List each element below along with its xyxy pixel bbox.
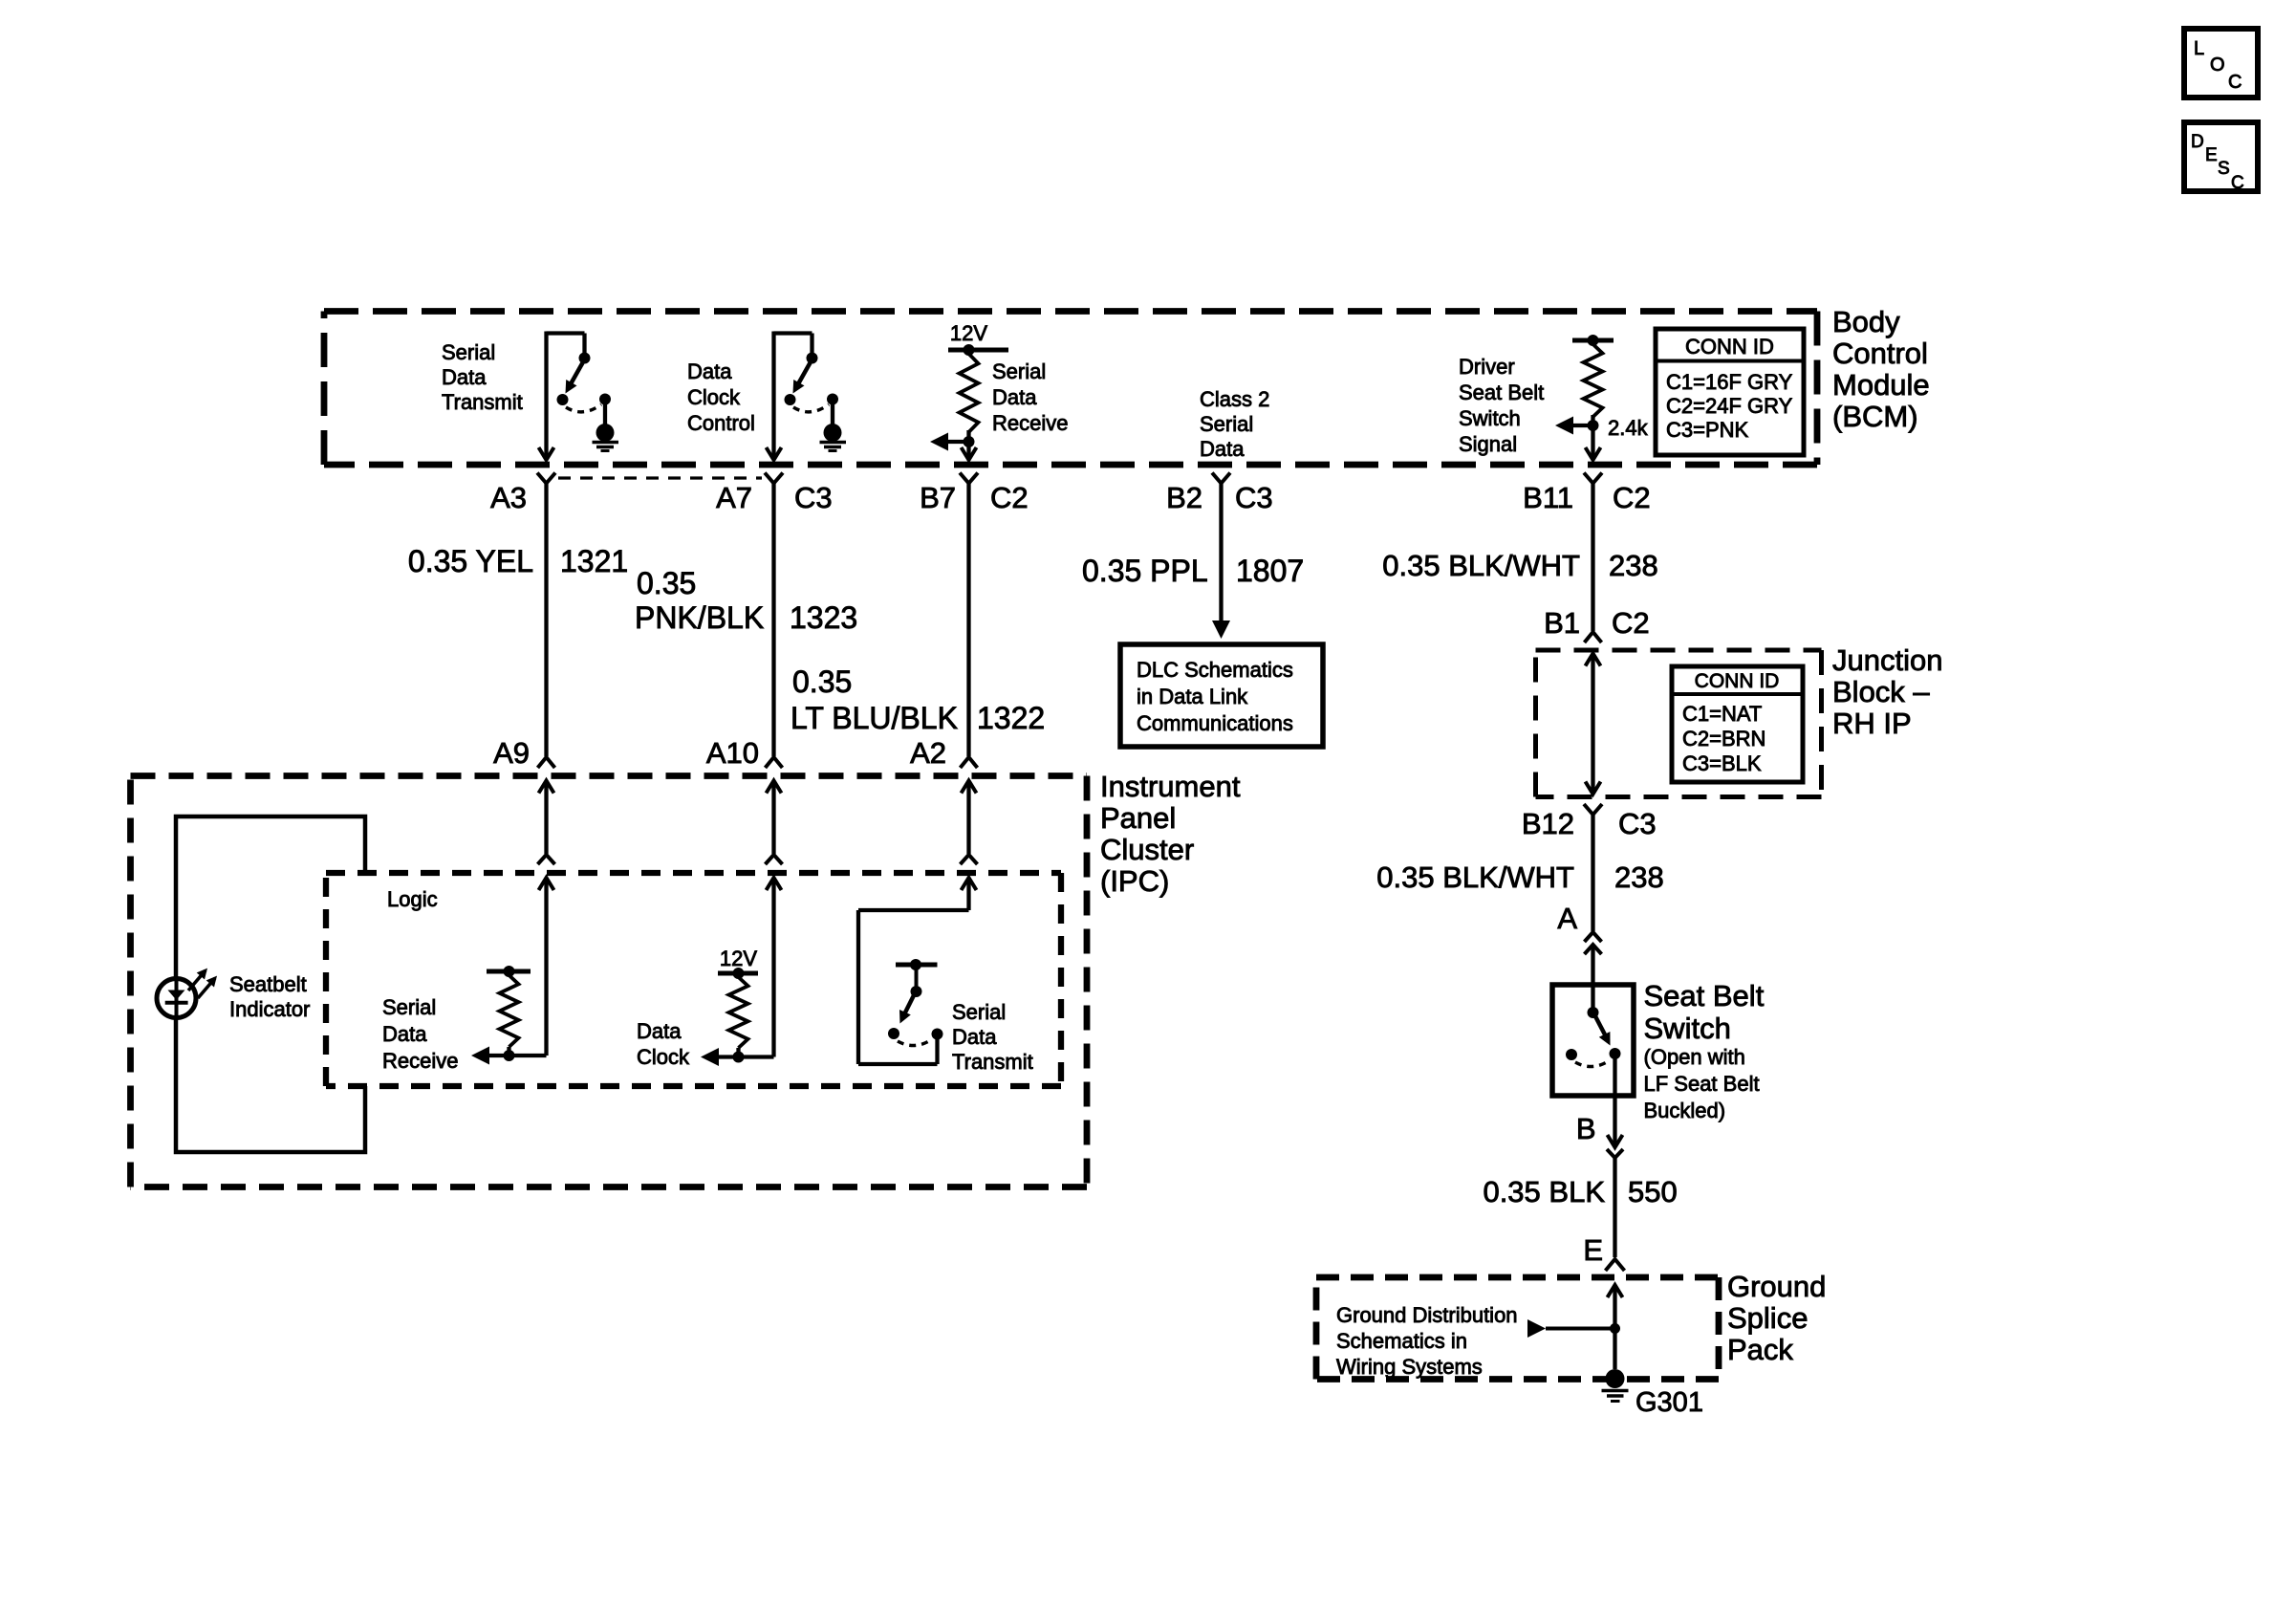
- svg-text:C: C: [2231, 173, 2244, 193]
- connector A10: [706, 736, 783, 770]
- svg-text:A7: A7: [716, 481, 752, 514]
- svg-text:Data: Data: [687, 359, 732, 383]
- svg-text:D: D: [2191, 132, 2204, 152]
- svg-text:O: O: [2210, 54, 2225, 76]
- label: Body Control Module (BCM): [1832, 305, 1930, 433]
- svg-text:Driver: Driver: [1459, 355, 1515, 379]
- svg-text:Pack: Pack: [1727, 1333, 1793, 1366]
- svg-text:Block –: Block –: [1832, 675, 1930, 708]
- wire label: 0.35 BLK / 550: [1483, 1175, 1677, 1208]
- LED light arrows: [188, 969, 217, 998]
- svg-text:2.4k: 2.4k: [1608, 416, 1649, 440]
- svg-text:Buckled): Buckled): [1644, 1099, 1726, 1122]
- Seat Belt Switch box: [1552, 985, 1634, 1096]
- svg-text:238: 238: [1614, 860, 1664, 894]
- connector A9: [493, 736, 554, 770]
- wire A3 to A9: [544, 484, 548, 757]
- svg-text:0.35: 0.35: [792, 664, 852, 699]
- svg-text:C3: C3: [1618, 807, 1657, 840]
- svg-text:B11: B11: [1523, 481, 1573, 514]
- svg-text:Receive: Receive: [992, 411, 1068, 435]
- svg-text:Panel: Panel: [1100, 801, 1176, 835]
- resistor (IPC serial data receive): [487, 966, 531, 1061]
- svg-text:Data: Data: [637, 1019, 682, 1043]
- svg-text:C1=16F GRY: C1=16F GRY: [1666, 370, 1793, 394]
- svg-text:Serial: Serial: [382, 995, 436, 1019]
- svg-text:1321: 1321: [560, 544, 628, 578]
- svg-text:1322: 1322: [977, 701, 1045, 735]
- svg-text:Schematics in: Schematics in: [1336, 1329, 1467, 1353]
- label: Driver Seat Belt Switch Signal: [1459, 355, 1544, 456]
- seatbelt indicator LED: [157, 979, 196, 1018]
- svg-text:C3: C3: [794, 481, 833, 514]
- label: Seatbelt Indicator: [229, 972, 310, 1021]
- seat belt signal junction + left arrow: [1555, 417, 1599, 435]
- svg-text:550: 550: [1628, 1175, 1678, 1208]
- transistor switch: data clock control driver: [774, 332, 842, 458]
- svg-text:B: B: [1576, 1112, 1596, 1145]
- pin B12 / C3: [1522, 804, 1657, 840]
- svg-text:Clock: Clock: [637, 1045, 690, 1069]
- wire A7 to A10: [771, 484, 775, 757]
- wire to ground splice pack: [1613, 1158, 1616, 1257]
- svg-text:Data: Data: [1200, 437, 1245, 461]
- resistor 2.4k: [1584, 344, 1603, 417]
- wire B out of seat belt switch: [1607, 1054, 1623, 1158]
- resistor (IPC data clock pull-up): [718, 968, 758, 1063]
- svg-text:C3: C3: [1235, 481, 1273, 514]
- svg-text:Data: Data: [992, 385, 1037, 409]
- label: Serial Data Transmit (IPC): [952, 1000, 1033, 1074]
- label: Data Clock Control (BCM): [687, 359, 755, 435]
- connector link dashed line A3-A7: [558, 476, 762, 479]
- svg-text:C2=24F GRY: C2=24F GRY: [1666, 394, 1793, 418]
- svg-text:RH IP: RH IP: [1832, 707, 1912, 740]
- svg-text:Wiring Systems: Wiring Systems: [1336, 1355, 1483, 1379]
- svg-text:C: C: [2228, 72, 2242, 93]
- svg-text:Module: Module: [1832, 368, 1930, 402]
- splice branch arrow: [1527, 1319, 1620, 1338]
- svg-text:Junction: Junction: [1832, 643, 1942, 677]
- IPC receive junction line + left arrow: [471, 1047, 547, 1065]
- pin A3: [490, 473, 555, 515]
- svg-text:C2=BRN: C2=BRN: [1682, 727, 1765, 751]
- svg-text:G301: G301: [1635, 1387, 1703, 1418]
- svg-text:Data: Data: [382, 1022, 427, 1046]
- svg-text:0.35 BLK/WHT: 0.35 BLK/WHT: [1382, 549, 1580, 582]
- transistor switch: serial data transmit driver: [547, 332, 615, 458]
- label: Data Clock (IPC): [637, 1019, 690, 1069]
- svg-text:C3=PNK: C3=PNK: [1666, 418, 1749, 442]
- svg-text:C2: C2: [1612, 606, 1650, 640]
- svg-text:Control: Control: [687, 411, 755, 435]
- wire arrow at BCM edge (A7): [767, 447, 782, 460]
- wire arrow at BCM edge (B11): [1586, 425, 1601, 460]
- svg-text:Class 2: Class 2: [1200, 387, 1269, 411]
- wire B11 to B1: [1591, 484, 1594, 632]
- svg-text:C2: C2: [990, 481, 1029, 514]
- CONN ID table (junction block): [1672, 666, 1803, 782]
- svg-text:12V: 12V: [950, 321, 987, 345]
- connector A2: [910, 736, 977, 770]
- wire A10 into IPC: [766, 781, 783, 1057]
- label: Serial Data Transmit (BCM): [442, 340, 523, 414]
- internal rail bar (2.4k pull-up): [1572, 335, 1614, 346]
- svg-text:Instrument: Instrument: [1100, 770, 1241, 803]
- transistor switch: IPC serial data transmit: [888, 959, 943, 1046]
- pin A7 / C3: [716, 473, 833, 515]
- svg-text:Clock: Clock: [687, 385, 741, 409]
- svg-text:Logic: Logic: [387, 887, 438, 911]
- label: Serial Data Receive (BCM): [992, 359, 1068, 435]
- svg-text:S: S: [2218, 159, 2230, 179]
- svg-text:A: A: [1557, 902, 1577, 935]
- svg-text:Communications: Communications: [1137, 711, 1293, 735]
- svg-text:C1=NAT: C1=NAT: [1682, 702, 1762, 726]
- wire label: 0.35 PNK/BLK / 1323: [635, 566, 857, 635]
- wire label: 0.35 BLK/WHT / 238 (lower): [1376, 860, 1663, 894]
- svg-text:Control: Control: [1832, 337, 1928, 370]
- svg-text:Serial: Serial: [992, 359, 1046, 383]
- DESC reference box: [2184, 122, 2258, 193]
- wire arrow at BCM edge (B7): [962, 442, 977, 460]
- label: Seat Belt Switch (Open with LF Seat Belt Buckled): [1644, 979, 1765, 1122]
- svg-text:A3: A3: [490, 481, 527, 514]
- svg-text:Switch: Switch: [1644, 1012, 1731, 1045]
- svg-text:0.35 BLK: 0.35 BLK: [1483, 1175, 1605, 1208]
- svg-text:LT BLU/BLK: LT BLU/BLK: [791, 701, 958, 735]
- wire A9 into IPC: [538, 781, 555, 1056]
- svg-text:(BCM): (BCM): [1832, 400, 1918, 433]
- ground symbol (BCM transmit switch): [593, 443, 619, 451]
- wire A2 into IPC: [961, 781, 978, 911]
- svg-text:1807: 1807: [1236, 554, 1304, 588]
- svg-text:Indicator: Indicator: [229, 997, 310, 1021]
- svg-text:Body: Body: [1832, 305, 1900, 338]
- svg-text:(IPC): (IPC): [1100, 864, 1169, 898]
- pin B11 / C2: [1523, 473, 1651, 515]
- pin E: [1583, 1233, 1624, 1271]
- label: Serial Data Receive (IPC): [382, 995, 458, 1073]
- svg-text:A9: A9: [493, 736, 530, 770]
- IPC Logic dashed box: [326, 873, 1061, 1086]
- arrowhead into DLC box: [1212, 620, 1230, 639]
- DLC schematics reference box: [1120, 644, 1323, 747]
- svg-text:0.35 BLK/WHT: 0.35 BLK/WHT: [1376, 860, 1574, 894]
- svg-text:Signal: Signal: [1459, 432, 1517, 456]
- svg-text:1323: 1323: [790, 600, 857, 635]
- svg-text:Seatbelt: Seatbelt: [229, 972, 307, 996]
- svg-text:(Open with: (Open with: [1644, 1045, 1745, 1069]
- svg-text:LF Seat Belt: LF Seat Belt: [1644, 1072, 1760, 1096]
- svg-text:Data: Data: [952, 1025, 997, 1049]
- svg-text:Data: Data: [442, 365, 487, 389]
- seat belt switch contacts and lever: [1566, 985, 1621, 1067]
- svg-text:A2: A2: [910, 736, 946, 770]
- svg-text:B2: B2: [1166, 481, 1202, 514]
- svg-text:PNK/BLK: PNK/BLK: [635, 600, 764, 635]
- wire loop to transmit switch: [858, 910, 969, 1064]
- wire B12 to seat belt switch: [1591, 815, 1594, 931]
- svg-text:A10: A10: [706, 736, 759, 770]
- svg-text:E: E: [2205, 145, 2218, 165]
- svg-text:Serial: Serial: [1200, 412, 1253, 436]
- svg-text:Ground Distribution: Ground Distribution: [1336, 1303, 1518, 1327]
- wire label: 0.35 PPL / 1807: [1082, 554, 1304, 588]
- svg-text:Receive: Receive: [382, 1049, 458, 1073]
- svg-text:Serial: Serial: [952, 1000, 1006, 1024]
- svg-text:0.35 PPL: 0.35 PPL: [1082, 554, 1208, 588]
- svg-text:Switch: Switch: [1459, 406, 1521, 430]
- LOC reference box: [2184, 29, 2258, 98]
- svg-text:L: L: [2194, 38, 2204, 59]
- label: Ground Splice Pack: [1727, 1270, 1826, 1366]
- wire label: 0.35 YEL / 1321: [408, 544, 628, 578]
- wire through junction block: [1586, 654, 1601, 795]
- svg-text:CONN ID: CONN ID: [1695, 670, 1780, 692]
- Instrument Panel Cluster dashed box: [131, 773, 1088, 779]
- svg-text:DLC Schematics: DLC Schematics: [1137, 658, 1293, 682]
- svg-text:Cluster: Cluster: [1100, 833, 1194, 866]
- inline break chevrons (wire A): [1585, 932, 1602, 985]
- Body Control Module (BCM) dashed box: [324, 308, 1817, 315]
- seatbelt indicator circuit box (solid): [176, 816, 365, 1152]
- svg-text:in Data Link: in Data Link: [1137, 685, 1248, 708]
- label: Junction Block - RH IP: [1832, 643, 1942, 740]
- wire label: 0.35 LT BLU/BLK / 1322: [791, 664, 1045, 735]
- svg-text:Ground: Ground: [1727, 1270, 1826, 1303]
- pin B7 / C2: [920, 473, 1029, 515]
- 12V rail bar: [948, 344, 1008, 356]
- svg-text:B1: B1: [1544, 606, 1580, 640]
- svg-text:Splice: Splice: [1727, 1301, 1808, 1335]
- resistor (BCM serial data receive pull-up): [960, 354, 979, 432]
- IPC clock junction line + left arrow: [701, 1048, 774, 1066]
- svg-text:Serial: Serial: [442, 340, 495, 364]
- Ground Splice Pack dashed box: [1316, 1274, 1719, 1281]
- svg-text:CONN ID: CONN ID: [1685, 335, 1774, 359]
- ground symbol (BCM clock switch): [820, 443, 847, 451]
- svg-text:C2: C2: [1613, 481, 1651, 514]
- Junction Block dashed box: [1536, 648, 1822, 653]
- ground G301: [1602, 1369, 1629, 1402]
- svg-text:Transmit: Transmit: [952, 1050, 1033, 1074]
- wire E into splice pack: [1608, 1285, 1623, 1369]
- wire arrow at BCM edge (A3): [539, 447, 554, 460]
- svg-text:B7: B7: [920, 481, 956, 514]
- wire B2 (class 2 serial data): [1219, 484, 1223, 624]
- pin B2 / C3: [1166, 473, 1273, 515]
- receive signal junction + left arrow: [930, 433, 975, 451]
- label: Instrument Panel Cluster (IPC): [1100, 770, 1241, 898]
- wire label: 0.35 BLK/WHT / 238 (upper): [1382, 549, 1657, 582]
- svg-text:12V: 12V: [720, 947, 757, 970]
- svg-text:0.35 YEL: 0.35 YEL: [408, 544, 533, 578]
- svg-text:238: 238: [1609, 549, 1658, 582]
- svg-text:Seat Belt: Seat Belt: [1459, 381, 1544, 404]
- label: Class 2 Serial Data: [1200, 387, 1269, 461]
- svg-text:C3=BLK: C3=BLK: [1682, 751, 1762, 775]
- svg-text:0.35: 0.35: [637, 566, 696, 600]
- wire B7 to A2: [966, 484, 970, 757]
- CONN ID table (BCM): [1656, 329, 1804, 455]
- svg-text:E: E: [1583, 1233, 1603, 1267]
- pin B1 / C2: [1544, 606, 1650, 642]
- label: Ground Distribution Schematics in Wiring Systems: [1336, 1303, 1518, 1379]
- svg-text:Seat Belt: Seat Belt: [1644, 979, 1765, 1012]
- svg-text:B12: B12: [1522, 807, 1574, 840]
- svg-text:Transmit: Transmit: [442, 390, 523, 414]
